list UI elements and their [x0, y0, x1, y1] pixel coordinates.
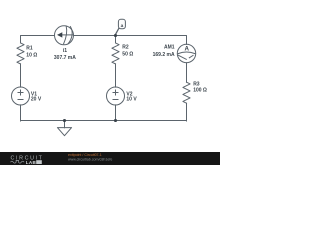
i1 internal line — [62, 34, 74, 36]
node a pointer — [115, 28, 119, 35]
AM1 needle — [178, 55, 186, 59]
wire bottom — [21, 120, 187, 122]
AM1 tick — [189, 55, 193, 57]
wire AM1 to R3 — [186, 63, 188, 82]
footer logo wave — [11, 160, 25, 163]
svg-text:169.2 mA: 169.2 mA — [153, 52, 175, 58]
svg-text:R1: R1 — [26, 45, 33, 51]
i1 internal arcs — [64, 26, 67, 44]
current probe i1 circle — [55, 26, 74, 45]
footer bar — [0, 152, 220, 165]
ground stem — [64, 121, 66, 128]
junction node a dot — [114, 34, 117, 37]
svg-text:a: a — [121, 24, 124, 29]
V1 plus — [18, 92, 23, 94]
wire R3 to bottom — [186, 103, 188, 121]
resistor R1 — [17, 43, 24, 64]
svg-text:10 Ω: 10 Ω — [26, 53, 37, 59]
svg-text:100 Ω: 100 Ω — [193, 87, 207, 93]
V2 plus — [113, 92, 118, 94]
ground triangle — [57, 128, 71, 136]
wire V1 to bottom — [20, 105, 22, 121]
wire top left horizontal — [21, 36, 55, 43]
V1 minus — [18, 99, 23, 101]
svg-text:20 V: 20 V — [31, 97, 42, 103]
wire R2 top — [115, 36, 117, 43]
svg-text:A: A — [184, 45, 189, 52]
svg-text:307.7 mA: 307.7 mA — [54, 55, 76, 61]
svg-text:10 V: 10 V — [126, 97, 137, 103]
resistor R2 — [112, 43, 119, 64]
i1 arrow — [57, 32, 62, 37]
svg-text:i1: i1 — [63, 48, 67, 54]
voltage source V2 circle — [107, 87, 125, 105]
svg-text:LAB: LAB — [26, 160, 37, 165]
junction V2 bottom dot — [114, 119, 117, 122]
svg-text:AM1: AM1 — [164, 45, 175, 51]
svg-text:50 Ω: 50 Ω — [122, 52, 133, 58]
resistor R3 — [183, 82, 190, 103]
AM1 scale arc — [178, 52, 195, 54]
wire V2 to bottom — [115, 105, 117, 121]
footer logo mark — [36, 160, 42, 164]
voltage source V1 circle — [12, 87, 30, 105]
svg-text:www.circuitlab.com/c8h1efe: www.circuitlab.com/c8h1efe — [68, 157, 112, 161]
node a box — [118, 19, 125, 28]
wire R2 to V2 — [115, 64, 117, 87]
svg-text:R2: R2 — [122, 44, 129, 50]
junction ground dot — [63, 119, 66, 122]
V2 minus — [113, 99, 118, 101]
wire top right horizontal — [74, 36, 187, 45]
ammeter AM1 circle — [177, 44, 195, 62]
wire left branch R1 to V1 — [20, 64, 22, 87]
